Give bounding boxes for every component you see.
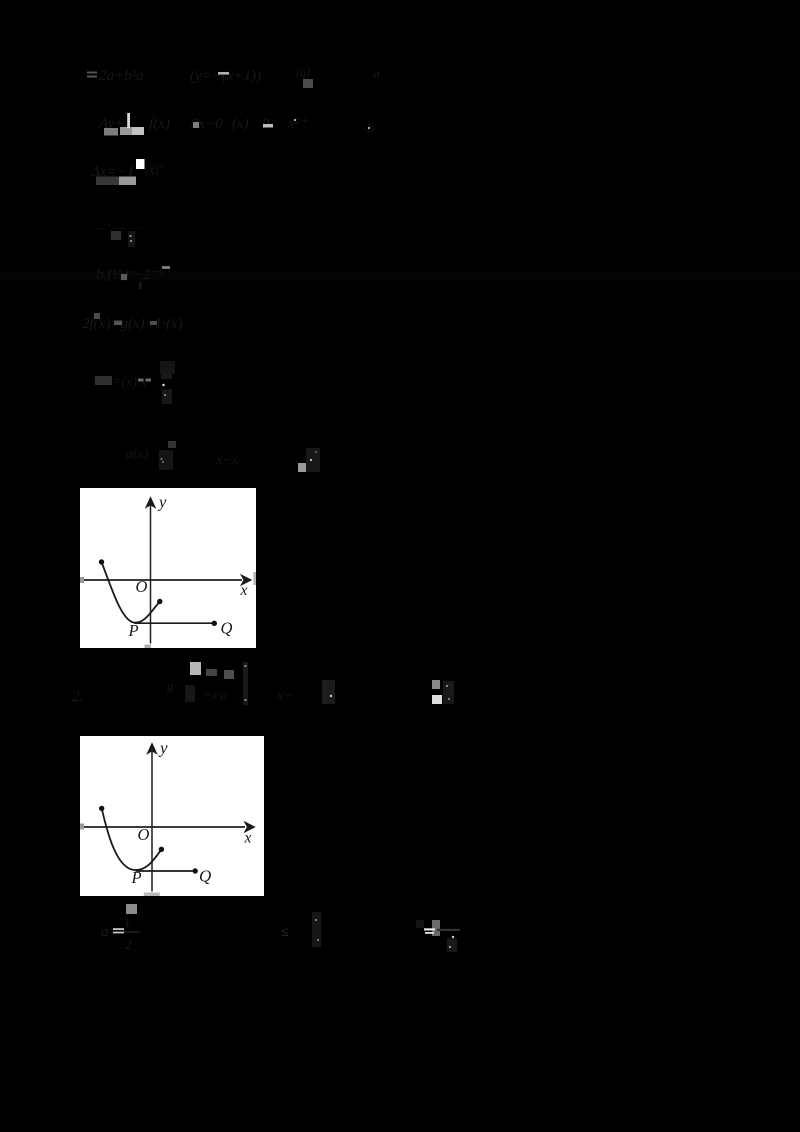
- box1 left edge stub: [80, 577, 84, 583]
- bottom right gray block: [432, 920, 440, 936]
- svg-text:g: g: [167, 678, 174, 693]
- svg-text:·b: ·b: [363, 121, 375, 137]
- text line 3: [90, 162, 164, 180]
- svg-text:(y=−(x+1)): (y=−(x+1)): [190, 68, 261, 84]
- box1 y-axis arrowhead: [145, 496, 157, 509]
- svg-text:y: y: [158, 739, 168, 758]
- line 9 right glyphs: [443, 681, 454, 704]
- bottom right gray underscore: [437, 929, 460, 931]
- svg-text:(q): (q): [296, 65, 310, 79]
- line 2 specks: [294, 119, 296, 121]
- graph box 2: [80, 736, 264, 896]
- line 7 fraction column: [160, 361, 175, 374]
- svg-text:(x): (x): [232, 116, 249, 132]
- line 1 bright minus bar: [218, 72, 229, 75]
- line 2 zero bright bottom: [263, 124, 273, 128]
- svg-text:x−x: x−x: [215, 453, 239, 468]
- box2 curve: [102, 808, 162, 870]
- line 9 mid cluster: [322, 680, 335, 704]
- text line 4: [94, 217, 146, 234]
- box1 y-axis: [150, 505, 152, 644]
- box2 x-axis arrowhead: [243, 821, 255, 833]
- line 5 faint below: [139, 282, 142, 289]
- bottom line a= text: [101, 915, 132, 952]
- svg-text:P: P: [128, 621, 139, 640]
- svg-text:|x|ª: |x|ª: [144, 162, 164, 178]
- svg-text:2: 2: [125, 937, 132, 952]
- text line 5: [96, 267, 163, 283]
- line 9 right white square: [432, 695, 442, 704]
- graph box 1: [80, 488, 256, 648]
- line 9 tall column: [243, 662, 248, 705]
- line 5 bright dash: [162, 266, 170, 269]
- line 1 equals highlight: [87, 72, 97, 78]
- text line 6: [82, 316, 183, 332]
- box1 curve end dot: [157, 599, 162, 604]
- text line 7: [112, 375, 147, 390]
- box2 Q dot: [193, 868, 198, 873]
- line 9 right gray square: [432, 680, 440, 689]
- box1 segment PQ: [134, 622, 214, 624]
- text line 9: [72, 678, 448, 705]
- svg-text:y: y: [157, 493, 167, 512]
- svg-text:Q: Q: [199, 867, 211, 886]
- box2 x-axis: [84, 826, 245, 828]
- line 6 lighter bits: [94, 313, 100, 319]
- svg-text:x: x: [240, 582, 248, 599]
- box1 bottom edge stub: [145, 645, 152, 649]
- svg-text:2a+b²a: 2a+b²a: [99, 68, 144, 84]
- svg-text:Q: Q: [221, 619, 233, 638]
- line 9 small fraction: [185, 685, 195, 702]
- line 3 gray bands: [96, 177, 119, 186]
- box1 right edge notch: [253, 572, 256, 585]
- text line 8: [126, 447, 239, 468]
- box1 Q dot: [212, 621, 217, 626]
- box2 left edge stub: [80, 824, 84, 830]
- box1 curve: [102, 562, 160, 623]
- line 3 white square: [136, 159, 145, 169]
- box2 curve start dot: [99, 806, 104, 811]
- bottom line fraction bar: [124, 931, 140, 933]
- line 8 right cluster: [298, 463, 306, 472]
- bottom right bright equals: [424, 928, 435, 930]
- bottom line mid fraction: [312, 912, 321, 947]
- box2 segment PQ: [136, 870, 196, 872]
- box2 y-axis: [151, 751, 153, 892]
- svg-text:x−: x−: [276, 688, 294, 704]
- box1 x-axis: [84, 579, 242, 581]
- svg-text:2.: 2.: [72, 689, 83, 705]
- box1 x-axis arrowhead: [240, 574, 252, 586]
- svg-text:=(x)·x: =(x)·x: [112, 375, 147, 390]
- svg-text:x: x: [244, 830, 252, 847]
- text line 1: [99, 65, 380, 84]
- line 5 light patch: [121, 274, 127, 280]
- svg-text:…: …: [135, 217, 146, 231]
- svg-text:—⁻·—: —⁻·—: [94, 220, 126, 234]
- svg-text:b.(½)ˣ−2⁻ˣ: b.(½)ˣ−2⁻ˣ: [96, 267, 163, 283]
- bottom line gray square: [126, 904, 137, 914]
- box2 bottom edge stub: [144, 893, 160, 897]
- line 9 gray squares: [206, 669, 217, 676]
- bottom right fraction glyphs: [447, 938, 457, 952]
- svg-text:=x·a: =x·a: [203, 687, 228, 702]
- svg-text:x²⁺: x²⁺: [287, 116, 308, 132]
- line 7 light dashes: [138, 379, 144, 382]
- faint band row 5: [0, 271, 800, 281]
- svg-text:P: P: [131, 868, 142, 887]
- svg-text:≤: ≤: [281, 925, 289, 940]
- line 8 fraction cluster: [168, 441, 176, 448]
- line 1 gray block: [303, 79, 313, 88]
- svg-text:f(x): f(x): [149, 116, 170, 132]
- bottom right faint block: [416, 920, 424, 928]
- line 9 light square: [190, 662, 201, 675]
- line 2 bright vertical bar: [127, 113, 130, 128]
- line 2 light bands: [104, 128, 118, 136]
- line 4 gray block: [111, 231, 121, 240]
- line 2 bright corner: [193, 122, 199, 128]
- box1 curve start dot: [99, 559, 104, 564]
- line 7 gray block: [95, 376, 112, 385]
- box2 curve end dot: [159, 847, 164, 852]
- svg-text:a(x): a(x): [126, 447, 149, 462]
- text line 2: [98, 116, 375, 137]
- svg-text:O: O: [138, 825, 150, 844]
- line 4 mini fraction: [128, 231, 135, 247]
- bottom line bright equals: [113, 928, 124, 930]
- svg-text:a: a: [374, 68, 380, 80]
- svg-text:1: 1: [124, 915, 131, 930]
- svg-text:O: O: [136, 577, 148, 596]
- box2 y-axis arrowhead: [146, 742, 158, 755]
